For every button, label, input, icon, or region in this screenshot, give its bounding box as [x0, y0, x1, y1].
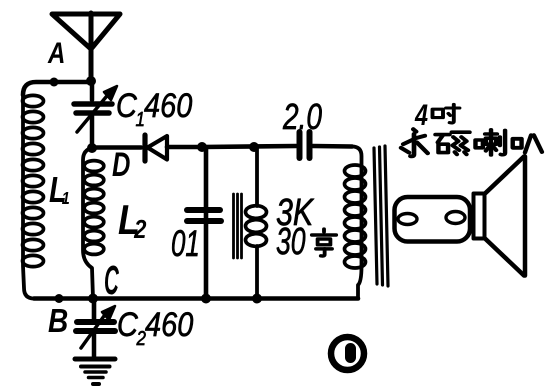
node A terminal dot [50, 78, 59, 87]
label yong (permanent) character [401, 129, 428, 156]
label A [47, 35, 65, 69]
label ba (horn) character [513, 135, 542, 152]
svg-text:01: 01 [171, 222, 200, 264]
svg-text:C: C [117, 305, 138, 344]
svg-text:2: 2 [133, 215, 147, 244]
inductor L1 [23, 93, 44, 299]
figure number 1 [331, 337, 364, 370]
svg-text:4: 4 [414, 98, 428, 131]
node .01 bottom junction [201, 294, 211, 304]
svg-text:460: 460 [144, 86, 193, 125]
label B [48, 303, 68, 340]
speaker driver [474, 194, 485, 239]
svg-text:B: B [48, 303, 68, 340]
label L1 [49, 169, 70, 210]
antenna [52, 13, 120, 80]
junction antenna/top wire [86, 76, 96, 86]
label D [112, 147, 130, 184]
node D junction [87, 143, 97, 153]
transformer T1 core [234, 194, 242, 258]
capacitor C2 (variable) [76, 299, 115, 358]
svg-text:1: 1 [62, 189, 70, 209]
wire cap 2.0 to T2 [313, 144, 352, 149]
svg-text:C: C [116, 86, 137, 125]
svg-text:2.0: 2.0 [282, 97, 322, 137]
node C junction [88, 294, 98, 304]
capacitor .01 branch wire [204, 147, 209, 299]
wire bottom [34, 296, 358, 301]
label C [104, 257, 119, 303]
wire top-left [23, 82, 91, 95]
svg-text:C: C [104, 257, 119, 303]
capacitor C1 (variable) [74, 82, 117, 146]
node primary bottom junction [252, 294, 262, 304]
label ci (magnet) character [435, 132, 469, 154]
transformer T2 winding [345, 147, 366, 299]
wire top middle [202, 146, 296, 147]
label la (horn) character [475, 130, 505, 155]
speaker magnet [395, 197, 471, 242]
label 2.0 [282, 97, 322, 137]
inductor L2 [83, 148, 104, 299]
speaker cone [485, 157, 525, 276]
diode D1 [145, 135, 167, 161]
label 3K 30H [276, 192, 315, 262]
capacitor 2.0 [300, 132, 310, 158]
node primary top junction [249, 142, 259, 152]
label C1 460 [116, 86, 193, 131]
transformer T2 core [374, 146, 388, 286]
svg-text:A: A [47, 35, 65, 69]
svg-text:30: 30 [276, 219, 306, 262]
wire node D to diode [92, 145, 141, 150]
svg-text:D: D [112, 147, 130, 184]
label L2 [118, 197, 147, 244]
capacitor .01 plates [187, 210, 221, 221]
node diode/cap junction [197, 142, 207, 152]
node B terminal dot [55, 294, 64, 303]
ground [75, 359, 115, 384]
transformer T1 primary winding [246, 147, 267, 299]
svg-text:460: 460 [145, 305, 194, 344]
label Heng (henry) character [312, 229, 336, 256]
label C2 460 [117, 305, 194, 350]
label 4 inch [414, 98, 459, 131]
label .01 [171, 222, 200, 264]
wire diode to junction [167, 145, 202, 150]
